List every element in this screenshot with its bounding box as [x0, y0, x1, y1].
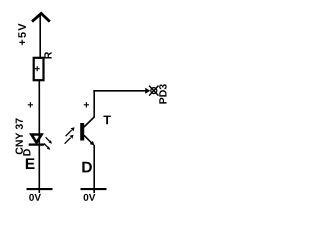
- wire resistor to LED: [38, 81, 40, 145]
- label R: [44, 52, 51, 59]
- wire to port PD3: [93, 90, 146, 92]
- photo arrow 2: [65, 135, 74, 144]
- label D (diode designator): [23, 149, 30, 155]
- wire +5V to resistor: [39, 14, 41, 59]
- port symbol circle: [151, 88, 157, 94]
- photo arrow 1: [66, 127, 75, 136]
- label PD3: [159, 84, 166, 103]
- emitter arrowhead: [90, 141, 95, 146]
- power +5V arrow: [32, 13, 50, 21]
- label + (polarity at resistor): [35, 66, 40, 71]
- resistor R: [34, 58, 44, 80]
- label D bold: [82, 162, 92, 173]
- LED emission arrow 1: [46, 137, 52, 143]
- ground bar right: [81, 188, 107, 190]
- wire LED to ground: [38, 145, 40, 193]
- label +5V: [18, 23, 26, 45]
- wire collector diagonal: [84, 117, 94, 127]
- LED cathode bar: [29, 143, 45, 145]
- port symbol cross: [149, 86, 158, 96]
- LED emission arrow 2: [44, 144, 50, 150]
- label T: [103, 116, 110, 125]
- label CNY 37: [15, 118, 22, 154]
- label E: [26, 158, 35, 169]
- port arrowhead: [145, 88, 150, 94]
- wire collector vertical: [93, 90, 95, 118]
- label 0V right: [84, 194, 96, 201]
- wire emitter to ground: [93, 145, 95, 193]
- label 0V left: [29, 194, 41, 201]
- label + (right branch node): [84, 102, 89, 107]
- label + (left branch node): [28, 102, 33, 107]
- emitter diagonal: [84, 135, 92, 143]
- ground bar left: [27, 188, 53, 190]
- transistor T base bar: [80, 123, 84, 141]
- LED anode triangle (emitter diode): [31, 135, 41, 143]
